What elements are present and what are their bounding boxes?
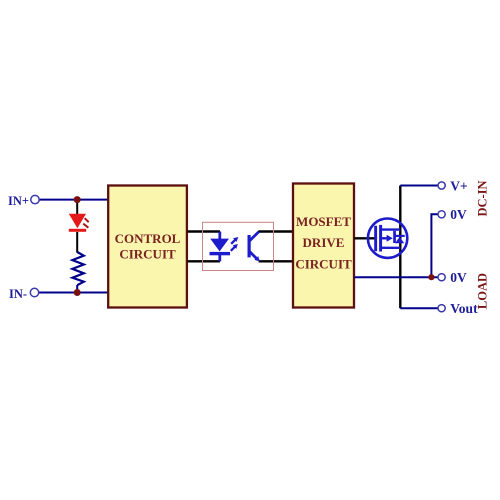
- terminal 0V upper: [438, 211, 445, 218]
- wire resistor to IN- line: [76, 285, 78, 293]
- terminal Vout: [438, 305, 445, 312]
- svg-text:LOAD: LOAD: [475, 273, 489, 309]
- svg-text:CIRCUIT: CIRCUIT: [295, 256, 352, 271]
- wire V+: [400, 185, 438, 187]
- wire LED branch upper: [76, 200, 78, 215]
- svg-text:0V: 0V: [450, 270, 467, 285]
- wire control to opto LED (top): [188, 230, 221, 232]
- svg-text:MOSFET: MOSFET: [296, 214, 351, 229]
- optocoupler phototransistor: [248, 232, 260, 262]
- svg-text:V+: V+: [450, 178, 467, 193]
- block MOSFET DRIVE CIRCUIT: [293, 184, 354, 308]
- svg-text:IN+: IN+: [8, 194, 29, 208]
- wire gate from mosfet drive block: [355, 237, 376, 239]
- optocoupler U1 outline box: [203, 222, 274, 270]
- optocoupler emission arrows: [231, 237, 238, 251]
- block CONTROL CIRCUIT: [108, 186, 187, 308]
- svg-text:IN-: IN-: [9, 287, 27, 301]
- terminal IN-: [30, 288, 38, 296]
- wire opto transistor to mosfet block (top): [258, 230, 292, 232]
- wire IN+ to control circuit: [39, 199, 108, 201]
- wire drain-source vertical: [399, 186, 401, 309]
- MOSFET Q1: [368, 219, 407, 258]
- wire Vout: [400, 307, 438, 309]
- svg-text:DC-IN: DC-IN: [475, 180, 489, 216]
- wire IN- to control circuit: [38, 292, 108, 294]
- wire 0V line from mosfet drive block: [355, 276, 439, 278]
- svg-text:CONTROL: CONTROL: [115, 231, 181, 246]
- svg-text:CIRCUIT: CIRCUIT: [119, 246, 176, 261]
- terminal IN+: [31, 195, 39, 203]
- wire LED to resistor: [76, 232, 78, 253]
- junction 0V: [428, 274, 434, 280]
- body diode: [395, 236, 405, 243]
- terminal V+: [438, 182, 445, 189]
- wire 0V upper stub and vertical: [431, 214, 438, 277]
- resistor R1: [72, 252, 83, 285]
- junction at IN+ branch: [74, 196, 81, 203]
- LED D1 red indicator: [69, 214, 89, 232]
- svg-text:Vout: Vout: [450, 301, 478, 316]
- terminal 0V lower: [438, 274, 445, 281]
- wire control to opto LED (bottom): [188, 260, 221, 262]
- junction at IN- branch: [74, 289, 81, 296]
- optocoupler LED: [210, 232, 231, 262]
- svg-text:0V: 0V: [450, 207, 467, 222]
- svg-text:DRIVE: DRIVE: [303, 235, 345, 250]
- wire opto transistor to mosfet block (bottom): [259, 260, 293, 262]
